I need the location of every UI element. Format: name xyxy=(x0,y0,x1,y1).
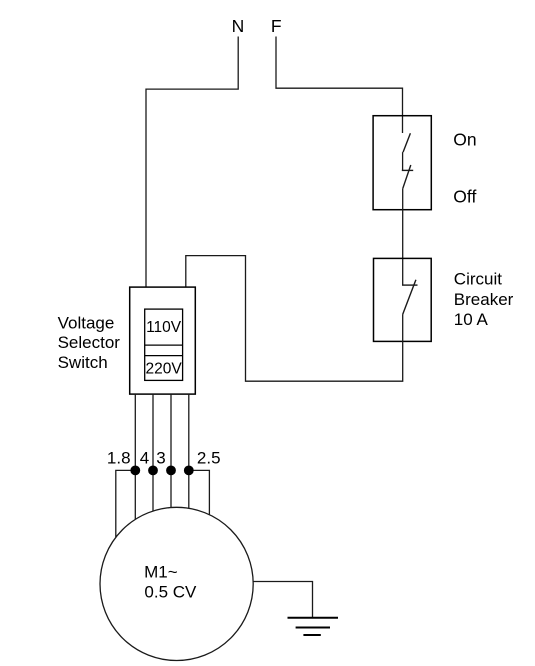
wire left branch to motor xyxy=(116,470,136,537)
svg-text:On: On xyxy=(453,130,476,150)
label M1~ 0.5 CV xyxy=(144,562,197,601)
wire N lead to voltage selector xyxy=(146,37,238,288)
voltage selector inner frame xyxy=(145,309,183,380)
svg-text:0.5 CV: 0.5 CV xyxy=(144,583,197,602)
wire motor to ground xyxy=(253,582,312,618)
ground xyxy=(288,618,339,635)
svg-text:220V: 220V xyxy=(145,361,182,378)
label Off xyxy=(453,187,476,207)
svg-text:Circuit: Circuit xyxy=(454,270,502,289)
label 110V xyxy=(146,319,182,336)
label Voltage Selector Switch xyxy=(58,313,121,371)
CB1 fixed contact tick xyxy=(402,284,418,286)
svg-text:110V: 110V xyxy=(146,319,182,336)
voltage selector divider upper xyxy=(145,344,183,346)
label Circuit Breaker 10 A xyxy=(454,270,514,329)
svg-text:Voltage: Voltage xyxy=(58,313,115,332)
svg-text:Off: Off xyxy=(453,187,476,207)
motor M1 body xyxy=(100,507,253,660)
label 220V xyxy=(145,361,182,378)
junction dot 4 xyxy=(184,466,194,476)
voltage selector switch body xyxy=(130,287,196,394)
svg-text:N: N xyxy=(232,16,245,36)
wire selector pin 4 to motor xyxy=(188,394,190,509)
wire selector pin 1 to motor xyxy=(134,394,136,521)
wire right branch to motor xyxy=(189,470,210,516)
svg-text:Switch: Switch xyxy=(58,353,108,372)
svg-text:3: 3 xyxy=(156,449,165,468)
junction dot 3 xyxy=(166,466,176,476)
CB1 blade xyxy=(403,280,416,315)
switch S1 lower blade xyxy=(403,165,411,189)
wire S1 mid link xyxy=(402,152,404,170)
wire F lead to On/Off switch xyxy=(276,37,403,134)
node N xyxy=(232,16,245,36)
junction dot 1 xyxy=(130,466,140,476)
label 1.8 xyxy=(107,449,131,468)
svg-text:F: F xyxy=(271,16,282,36)
svg-text:2.5: 2.5 xyxy=(197,449,221,468)
wire breaker to voltage selector xyxy=(186,256,403,382)
svg-text:10 A: 10 A xyxy=(454,310,489,329)
svg-text:4: 4 xyxy=(140,449,149,468)
node F xyxy=(271,16,282,36)
wire selector pin 3 to motor xyxy=(170,394,172,508)
label On xyxy=(453,130,476,150)
label 2.5 xyxy=(197,449,221,468)
voltage selector divider lower xyxy=(145,355,183,357)
wire selector pin 2 to motor xyxy=(152,394,154,512)
label 4 xyxy=(140,449,149,468)
svg-text:Breaker: Breaker xyxy=(454,290,514,309)
switch S1 On/Off body xyxy=(373,116,431,210)
switch S1 upper blade xyxy=(403,133,410,152)
label 3 xyxy=(156,449,165,468)
svg-text:1.8: 1.8 xyxy=(107,449,131,468)
svg-text:Selector: Selector xyxy=(58,333,121,352)
junction dot 2 xyxy=(148,466,158,476)
switch S1 lower contact tick xyxy=(402,169,413,171)
wire S1 to circuit breaker xyxy=(402,189,404,285)
circuit breaker CB1 body xyxy=(374,258,432,341)
svg-text:M1~: M1~ xyxy=(144,562,178,581)
